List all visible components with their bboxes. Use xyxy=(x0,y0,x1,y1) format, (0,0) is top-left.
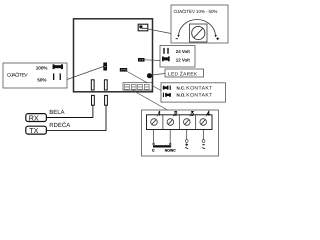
LED on PCB xyxy=(147,73,152,78)
relay contact bar xyxy=(153,145,171,147)
potentiometer on PCB xyxy=(138,24,148,31)
svg-text:50%: 50% xyxy=(37,78,46,83)
label 12 Volt xyxy=(176,58,191,63)
pin 1 tick and number xyxy=(157,111,160,116)
callout wire from terminal strip to terminal block xyxy=(133,91,168,111)
label RDECA (red wire) xyxy=(49,121,70,129)
relay switched wire (terminal 2) xyxy=(169,130,171,145)
power wire terminal 4 xyxy=(202,130,205,143)
trimmer screw circle xyxy=(192,26,205,39)
svg-text:N.O.: N.O. xyxy=(177,93,186,98)
jumper closed icon (100% position) xyxy=(53,64,63,69)
left callout box: gain jumper OJACITEV 100%/50% xyxy=(3,63,67,88)
jumper open icon (50% position) xyxy=(53,73,61,80)
callout wire from relay jumper to contact box xyxy=(127,72,161,91)
svg-text:12 Volt: 12 Volt xyxy=(176,58,191,63)
plus AC label (terminal 3) xyxy=(185,143,188,148)
svg-text:OJAČITEV: OJAČITEV xyxy=(7,71,28,78)
label C xyxy=(152,148,155,152)
relay mode jumper on PCB xyxy=(120,68,127,72)
adjustment arc arrow xyxy=(179,19,216,36)
svg-text:KONTAKT: KONTAKT xyxy=(186,93,212,99)
header pin RX upper xyxy=(91,80,94,90)
minus AC label (terminal 4) xyxy=(202,145,205,149)
RX wire (bela) xyxy=(47,105,93,117)
pin 2 tick and number xyxy=(173,111,177,116)
voltage callout box 24/12 Volt xyxy=(160,46,195,68)
jumper closed icon (12 Volt) xyxy=(162,56,170,61)
svg-text:100%: 100% xyxy=(36,66,48,71)
label 50% xyxy=(37,78,46,83)
svg-text:TX: TX xyxy=(29,126,38,135)
callout wire from voltage jumper to voltage box xyxy=(145,59,161,62)
label NO/NC xyxy=(165,148,176,152)
callout wire from LED to LED ZAREK box xyxy=(152,74,165,76)
label OJACITEV xyxy=(7,71,28,78)
label N.O. KONTAKT xyxy=(177,93,213,99)
label BELA (white wire) xyxy=(49,109,64,116)
svg-text:N.C.: N.C. xyxy=(177,85,186,90)
plus label xyxy=(216,37,219,40)
header pin TX lower xyxy=(105,95,108,105)
pin 3 tick and number xyxy=(190,111,194,116)
top-right callout box: gain dial OJACITEV 10% - 50% xyxy=(171,5,228,43)
svg-text:LED ŽAREK: LED ŽAREK xyxy=(168,71,198,78)
terminal screw 2 xyxy=(167,119,174,126)
terminal block body xyxy=(147,115,213,130)
TX transmitter box xyxy=(26,126,47,135)
N.C. row jumper icon (closed left, open right) xyxy=(163,86,171,90)
label N.C. KONTAKT xyxy=(177,85,213,91)
contact callout box N.C./N.O. KONTAKT xyxy=(161,83,226,102)
trimmer square xyxy=(190,24,208,42)
callout wire from left box to gain jumper xyxy=(67,67,104,80)
main control unit box xyxy=(74,19,153,92)
terminal screw 3 xyxy=(184,119,191,126)
terminal block outer box xyxy=(142,110,219,156)
pin 4 tick and number xyxy=(206,111,210,116)
terminal screw 4 xyxy=(200,119,207,126)
svg-text:BELA: BELA xyxy=(49,109,64,116)
svg-text:RX: RX xyxy=(29,113,39,122)
svg-text:NO/NC: NO/NC xyxy=(165,148,176,152)
gain jumper on PCB xyxy=(103,63,107,71)
header pin RX lower xyxy=(92,95,95,105)
minus label xyxy=(176,38,178,40)
jumper open icon (24 Volt) xyxy=(163,48,168,54)
callout wire from potentiometer to gain dial box xyxy=(148,29,171,34)
header pin TX upper xyxy=(104,80,107,90)
svg-text:KONTAKT: KONTAKT xyxy=(186,85,212,91)
power wire terminal 3 xyxy=(185,130,188,143)
TX wire (rdeca) xyxy=(47,105,107,130)
svg-text:RDEČA: RDEČA xyxy=(49,121,70,129)
arc arrowhead right xyxy=(215,35,217,37)
label 100% xyxy=(36,66,48,71)
terminal screw 1 xyxy=(151,119,158,126)
LED ZAREK callout box xyxy=(165,69,204,78)
label 24 Volt xyxy=(176,49,191,54)
label OJACITEV 10% - 50% xyxy=(174,9,218,14)
voltage jumper on PCB xyxy=(138,58,145,62)
relay common wire (terminal 1) xyxy=(153,130,155,145)
N.O. row jumper icon (open left, closed right) xyxy=(163,93,171,97)
terminal strip on PCB xyxy=(123,83,152,90)
svg-text:OJAČITEV 10% - 50%: OJAČITEV 10% - 50% xyxy=(174,9,218,14)
svg-text:C: C xyxy=(152,148,155,152)
RX receiver box xyxy=(26,113,47,122)
arc arrowhead left xyxy=(177,35,179,37)
svg-text:24 Volt: 24 Volt xyxy=(176,49,191,54)
